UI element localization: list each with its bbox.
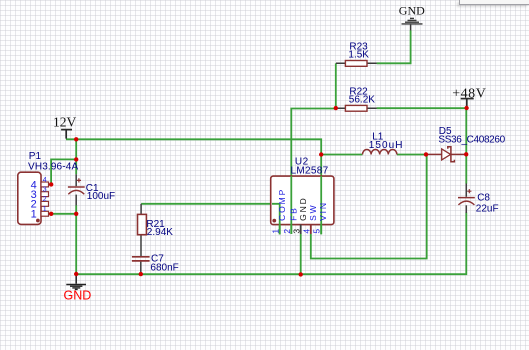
svg-text:3: 3 (291, 229, 301, 234)
svg-text:GND: GND (399, 3, 425, 17)
svg-text:C8: C8 (477, 193, 490, 204)
svg-text:GND: GND (64, 288, 92, 302)
svg-text:2: 2 (43, 196, 47, 203)
svg-text:1: 1 (43, 206, 47, 213)
svg-text:2.94K: 2.94K (147, 227, 173, 238)
svg-text:SS36_C408260: SS36_C408260 (438, 135, 505, 146)
svg-text:4: 4 (43, 177, 47, 184)
svg-text:12V: 12V (53, 114, 77, 129)
svg-text:150uH: 150uH (369, 140, 404, 151)
svg-text:VH3.96-4A: VH3.96-4A (28, 161, 78, 172)
svg-text:4: 4 (302, 229, 312, 234)
svg-text:+48V: +48V (452, 87, 486, 102)
svg-text:1: 1 (31, 208, 37, 220)
svg-text:COMP: COMP (277, 188, 287, 221)
svg-text:1.5K: 1.5K (348, 49, 369, 60)
svg-text:FB: FB (288, 206, 298, 221)
svg-text:3: 3 (43, 187, 47, 194)
svg-text:1: 1 (270, 229, 280, 234)
svg-text:680nF: 680nF (150, 262, 178, 273)
svg-text:GND: GND (298, 196, 308, 221)
svg-text:56.2K: 56.2K (349, 94, 375, 105)
svg-text:22uF: 22uF (476, 203, 499, 214)
svg-text:5: 5 (312, 229, 322, 234)
svg-text:100uF: 100uF (87, 191, 115, 202)
svg-text:LM2587: LM2587 (291, 166, 329, 177)
svg-text:SW: SW (308, 203, 318, 221)
svg-text:VIN: VIN (318, 201, 328, 221)
